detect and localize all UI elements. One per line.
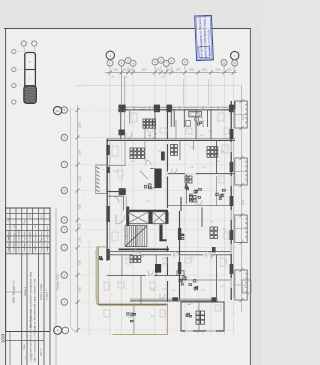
svg-text:по ул. Фестивальной в мкрн. Ве: по ул. Фестивальной в мкрн. Вешки 1 этап: [34, 278, 37, 328]
svg-text:Изм Лист Подп Дата: Изм Лист Подп Дата: [8, 231, 10, 252]
svg-text:НВК: НВК: [25, 355, 28, 360]
svg-text:3300: 3300: [78, 122, 81, 128]
svg-text:г: г: [234, 55, 235, 58]
svg-text:3300: 3300: [78, 259, 81, 265]
svg-text:6000: 6000: [243, 199, 245, 205]
svg-text:3530: 3530: [78, 203, 81, 209]
svg-text:2180: 2180: [78, 237, 81, 243]
svg-text:3120: 3120: [78, 176, 81, 182]
svg-text:План 1 этажа: План 1 этажа: [39, 283, 43, 300]
svg-text:3000: 3000: [202, 70, 208, 72]
svg-text:Стадия Р: Стадия Р: [46, 289, 49, 300]
svg-text:3240: 3240: [78, 149, 81, 155]
svg-text:6000: 6000: [243, 114, 245, 120]
svg-text:Лист 3: Лист 3: [40, 348, 43, 356]
svg-text:Этаж: Этаж: [24, 344, 26, 350]
svg-text:1120: 1120: [78, 223, 81, 229]
svg-text:3000: 3000: [141, 70, 147, 72]
svg-text:1800: 1800: [175, 70, 181, 72]
svg-text:6000: 6000: [243, 286, 245, 292]
svg-text:1023: 1023: [0, 333, 5, 343]
svg-text:Формат А2х3: Формат А2х3: [56, 274, 60, 290]
svg-text:Этаж 1: Этаж 1: [23, 287, 27, 296]
svg-text:A: A: [57, 329, 59, 333]
svg-text:3190: 3190: [215, 70, 221, 72]
svg-text:ВК-01: ВК-01: [31, 353, 34, 360]
svg-text:2250: 2250: [226, 70, 232, 72]
svg-text:3580: 3580: [189, 70, 195, 72]
svg-text:Жилой дом со встроенными помещ: Жилой дом со встроенными помещениями общ…: [30, 271, 33, 328]
svg-text:ИВЦ "Вешки" т.1: ИВЦ "Вешки" т.1: [12, 280, 16, 303]
svg-text:Изм Лист Подп Дата: Изм Лист Подп Дата: [14, 231, 16, 252]
